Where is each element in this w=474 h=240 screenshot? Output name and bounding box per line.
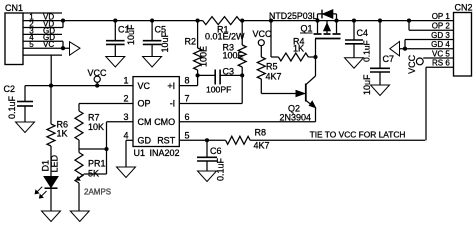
svg-text:-I: -I	[170, 99, 176, 109]
svg-text:0.01E/2W: 0.01E/2W	[205, 32, 245, 42]
svg-text:OP: OP	[138, 99, 151, 109]
svg-text:OP 1: OP 1	[432, 12, 451, 21]
svg-text:NTD25P03L: NTD25P03L	[269, 11, 318, 21]
svg-text:1: 1	[123, 76, 128, 86]
svg-text:10uF: 10uF	[362, 74, 372, 95]
svg-text:PR1: PR1	[88, 158, 106, 168]
svg-text:2AMPS: 2AMPS	[84, 188, 111, 197]
svg-text:U1: U1	[134, 148, 146, 158]
svg-text:CM: CM	[138, 117, 152, 127]
svg-text:2N3904: 2N3904	[280, 112, 312, 122]
svg-text:GD: GD	[138, 136, 152, 146]
svg-text:C6: C6	[210, 146, 222, 156]
svg-text:10uF: 10uF	[126, 24, 136, 45]
svg-text:GD 4: GD 4	[431, 40, 450, 49]
svg-text:+I: +I	[167, 81, 175, 91]
svg-text:100E: 100E	[199, 46, 209, 67]
svg-text:2: 2	[123, 94, 128, 104]
svg-text:INA202: INA202	[150, 148, 180, 158]
svg-text:CMO: CMO	[154, 117, 175, 127]
svg-text:VCC: VCC	[253, 29, 273, 39]
svg-text:VC: VC	[43, 40, 54, 49]
svg-text:VCC: VCC	[88, 68, 108, 78]
svg-text:GD 3: GD 3	[431, 31, 450, 40]
svg-text:100PF: 100PF	[206, 85, 231, 95]
svg-text:8: 8	[185, 76, 190, 86]
svg-text:6: 6	[185, 112, 190, 122]
svg-text:R2: R2	[185, 37, 197, 47]
svg-text:C4: C4	[357, 28, 369, 38]
svg-text:VC 5: VC 5	[432, 49, 450, 58]
svg-text:R8: R8	[255, 127, 267, 137]
svg-text:C7: C7	[383, 54, 395, 64]
svg-text:OP 2: OP 2	[432, 22, 451, 31]
svg-text:4K7: 4K7	[254, 140, 270, 150]
svg-text:CN1: CN1	[5, 3, 23, 13]
svg-text:C3: C3	[223, 67, 235, 77]
svg-text:CN2: CN2	[455, 2, 473, 12]
svg-text:7: 7	[185, 94, 190, 104]
svg-text:10uF: 10uF	[160, 31, 170, 52]
svg-text:R5: R5	[266, 62, 278, 72]
svg-text:5K: 5K	[88, 168, 99, 178]
svg-text:C2: C2	[4, 84, 16, 94]
svg-text:100E: 100E	[223, 50, 244, 60]
svg-text:4K7: 4K7	[266, 71, 282, 81]
svg-text:VCC: VCC	[407, 54, 417, 74]
svg-text:1K: 1K	[57, 128, 68, 138]
svg-text:3: 3	[123, 112, 128, 122]
svg-text:1K: 1K	[293, 43, 304, 53]
svg-text:RST: RST	[157, 136, 176, 146]
svg-text:5: 5	[29, 40, 34, 49]
svg-text:0.1uF: 0.1uF	[7, 95, 17, 119]
svg-text:0.1uF: 0.1uF	[216, 157, 226, 181]
svg-text:TIE TO VCC FOR LATCH: TIE TO VCC FOR LATCH	[310, 129, 406, 139]
svg-text:10K: 10K	[88, 122, 104, 132]
svg-text:RS 6: RS 6	[432, 59, 450, 68]
svg-text:0.1uF: 0.1uF	[361, 40, 371, 62]
svg-text:Q1: Q1	[301, 23, 313, 33]
svg-text:LED: LED	[50, 154, 60, 172]
svg-text:5: 5	[185, 130, 190, 140]
svg-text:VC: VC	[138, 81, 151, 91]
svg-text:4: 4	[123, 130, 128, 140]
